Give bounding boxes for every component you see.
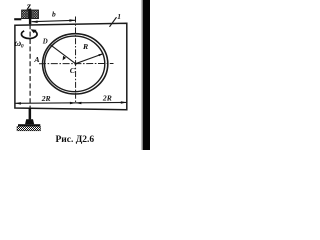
svg-text:1: 1 [117,12,121,21]
svg-text:D: D [42,38,48,45]
svg-text:C: C [70,66,76,75]
svg-text:Рис. Д2.6: Рис. Д2.6 [56,135,95,145]
svg-text:2R: 2R [102,94,112,103]
svg-text:R: R [82,42,88,51]
svg-text:2R: 2R [41,94,51,103]
svg-text:b: b [52,9,56,18]
svg-text:0: 0 [21,43,24,49]
svg-text:A: A [33,55,39,64]
